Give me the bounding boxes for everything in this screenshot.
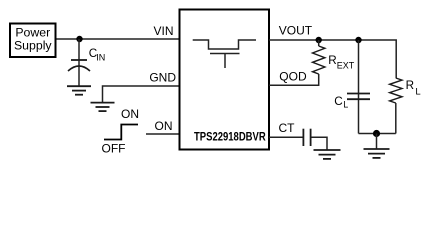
- capacitor C_L: [334, 94, 370, 110]
- svg-text:L: L: [415, 86, 420, 97]
- svg-text:L: L: [343, 100, 348, 110]
- wire load bottom rail: [359, 133, 396, 135]
- svg-text:C: C: [334, 95, 342, 108]
- wire CT pin: [269, 136, 303, 138]
- svg-text:TPS22918DBVR: TPS22918DBVR: [194, 130, 266, 144]
- ground (C_IN): [67, 86, 91, 95]
- wire QOD pin: [269, 74, 319, 85]
- wire VIN rail: [57, 38, 180, 40]
- wire GND pin: [103, 86, 180, 102]
- node VIN junction: [76, 36, 82, 42]
- svg-text:EXT: EXT: [337, 61, 355, 71]
- svg-text:ON: ON: [121, 107, 139, 121]
- svg-text:VIN: VIN: [153, 24, 173, 38]
- ground (load): [364, 149, 390, 158]
- svg-text:QOD: QOD: [279, 70, 307, 84]
- wire load ground stem: [376, 134, 378, 149]
- power supply source: [10, 24, 56, 58]
- svg-text:ON: ON: [155, 119, 173, 133]
- svg-text:CT: CT: [279, 121, 296, 135]
- resistor R_EXT: [313, 40, 355, 74]
- transistor pass FET: [193, 40, 256, 68]
- ON/OFF control waveform: [102, 107, 140, 155]
- node VOUT junction 1: [316, 37, 322, 43]
- resistor R_L: [390, 78, 421, 134]
- svg-text:R: R: [328, 54, 336, 67]
- capacitor C_IN: [68, 47, 105, 71]
- wire C_IN branch: [78, 39, 80, 86]
- wire VOUT rail: [269, 40, 396, 78]
- svg-text:IN: IN: [96, 53, 105, 63]
- capacitor CT: [303, 129, 310, 146]
- ground (CT): [314, 150, 341, 159]
- wire C_L branch: [358, 40, 360, 134]
- wire CT ground stem: [312, 137, 328, 150]
- svg-text:VOUT: VOUT: [279, 23, 313, 37]
- node load ground junction: [373, 130, 380, 137]
- node VOUT junction 2: [355, 37, 361, 43]
- ground (GND pin): [91, 103, 115, 112]
- wire ON pin: [146, 133, 179, 135]
- svg-text:Power: Power: [15, 26, 50, 40]
- svg-text:OFF: OFF: [102, 141, 126, 155]
- svg-text:GND: GND: [149, 70, 176, 84]
- IC U1 TPS22918DBVR: [180, 10, 270, 150]
- svg-text:R: R: [406, 79, 414, 92]
- svg-text:Supply: Supply: [14, 39, 52, 53]
